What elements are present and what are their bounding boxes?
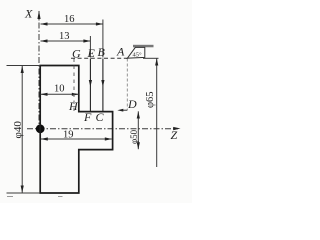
tool path: G-H vertical dashed [73,59,75,112]
svg-text:D: D [127,97,137,111]
svg-text:G: G [72,47,81,61]
tool path: D to corner arrow [122,109,127,111]
tool path: A-D vertical faint [126,59,128,111]
svg-text:φ65: φ65 [145,91,156,108]
svg-text:19: 19 [63,130,74,141]
extension line phi40 top [7,65,41,67]
svg-text:φ50: φ50 [129,129,139,144]
dimension phi65 line [156,59,158,168]
X axis arrowhead [37,11,40,20]
dimension 10 line [41,93,79,95]
Z axis arrowhead [173,127,180,130]
svg-text:X: X [24,7,33,21]
svg-text:13: 13 [59,31,70,42]
svg-text:B: B [98,45,106,59]
origin point dot [36,124,45,133]
wire: X axis centerline [38,11,40,129]
dimension phi40 line [21,66,23,193]
svg-text:F: F [83,110,92,124]
svg-text:45°: 45° [133,52,143,59]
cutting tool bit outline [127,47,145,58]
svg-text:Z: Z [171,128,178,142]
tool path: E-F vertical [89,59,91,112]
dimension 16 line [41,23,103,25]
svg-text:φ40: φ40 [12,121,24,139]
svg-text:E: E [87,46,96,60]
extension line for phi65 [143,57,159,59]
dimension phi50 line [137,111,139,149]
wire: Z axis centerline [27,128,178,130]
part outline (workpiece profile) [40,66,112,194]
svg-text:16: 16 [64,14,75,25]
svg-text:C: C [96,110,105,124]
lathe tool-path diagram [0,0,192,203]
faint chuck mark right [58,196,63,198]
cutting tool symbol at A: shank bar [133,45,154,48]
svg-text:H: H [68,99,79,113]
extension line phi40 bottom [7,192,41,194]
faint chuck mark left [7,196,13,198]
svg-text:10: 10 [54,84,65,95]
dimension 13 line [41,40,91,42]
tool path: B-C vertical [102,59,104,112]
svg-text:A: A [116,45,125,59]
extension line for 16 at B [102,20,104,58]
extension line for 13 at E [89,36,91,58]
dimension 19 line [41,138,112,140]
tool path: top rapid line through G E B A [71,57,127,59]
